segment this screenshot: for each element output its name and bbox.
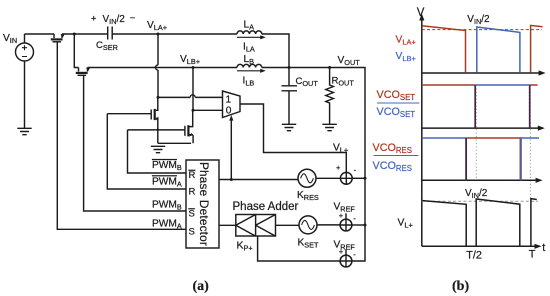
- axis vertical (b): [421, 18, 423, 246]
- dotted guide T: [529, 85, 531, 199]
- svg-text:VCORES: VCORES: [373, 160, 412, 173]
- oscillator KRES: [297, 169, 319, 202]
- summing node 3: [334, 240, 357, 267]
- summing node 2: [334, 202, 357, 231]
- svg-text:V: V: [417, 7, 425, 19]
- svg-text:PWMB: PWMB: [152, 200, 182, 212]
- svg-text:PWMA: PWMA: [152, 219, 182, 231]
- wire LB to VOUT corner: [262, 68, 365, 262]
- svg-text:COUT: COUT: [296, 76, 319, 88]
- waveform VCOSET (red) panel2: [422, 84, 538, 86]
- svg-text:-: -: [353, 214, 356, 223]
- svg-text:T: T: [529, 248, 536, 260]
- svg-text:-: -: [354, 166, 357, 175]
- capacitor C_SER: [91, 13, 135, 52]
- label VCORES bar blue: [374, 155, 419, 157]
- wire gate M4 down to R bar pin: [128, 130, 187, 173]
- svg-text:VIN/2: VIN/2: [103, 14, 126, 26]
- panel4 x axis: [422, 245, 538, 247]
- svg-text:VLA+: VLA+: [396, 35, 417, 47]
- svg-text:VREF: VREF: [334, 240, 356, 252]
- svg-text:LA: LA: [244, 20, 255, 32]
- wire down to M2: [74, 34, 78, 68]
- svg-text:R: R: [189, 186, 196, 197]
- svg-text:t: t: [542, 242, 545, 254]
- waveform VCOSET bar (blue) panel2: [475, 84, 530, 86]
- phase detector box U1: [186, 160, 219, 248]
- panel2 x axis: [422, 127, 541, 129]
- svg-text:Phase Adder: Phase Adder: [233, 201, 299, 213]
- inductor LA: [237, 20, 266, 54]
- inductor LB: [237, 54, 266, 88]
- wire top rail VIN to M1: [25, 33, 55, 35]
- wire gate M3 down to R pin: [107, 114, 186, 189]
- wire KRES to sum1: [316, 177, 340, 179]
- svg-text:VLA+: VLA+: [147, 20, 167, 32]
- wire M3 source down and source rail to M4: [158, 129, 191, 143]
- transistor M4: [127, 110, 193, 143]
- phase adder block: [233, 201, 299, 253]
- svg-text:(b): (b): [452, 279, 469, 294]
- svg-text:PWMA: PWMA: [152, 176, 182, 188]
- svg-text:KSET: KSET: [298, 238, 320, 250]
- wire VLA node to mux input 1 with hop: [157, 96, 160, 99]
- wire gate M2 down to S bar pin: [84, 75, 186, 211]
- capacitor COUT: [282, 68, 319, 125]
- wire M1 drain to C_SER: [62, 33, 108, 35]
- svg-text:ILB: ILB: [243, 76, 255, 88]
- svg-text:VL+: VL+: [333, 143, 348, 155]
- wire VLB rail M2 to LB: [88, 67, 238, 69]
- wire KSET to sum2: [317, 224, 341, 226]
- waveform VLA+ (red) panel1: [422, 25, 543, 72]
- svg-text:VCORES: VCORES: [373, 142, 412, 155]
- label VCOSET bar blue: [377, 102, 419, 104]
- node VLB+: [192, 66, 195, 69]
- wire gate M1 down to S pin: [57, 42, 186, 230]
- transistor M2: [76, 67, 91, 75]
- svg-text:VCOSET: VCOSET: [377, 89, 416, 102]
- panel1 VIN/2 dashed level: [422, 29, 542, 31]
- waveform VCORES bar (blue) panel3: [422, 138, 539, 180]
- svg-text:1: 1: [226, 95, 232, 106]
- svg-text:KP+: KP+: [237, 240, 253, 253]
- ground (ROUT): [322, 124, 336, 130]
- summing node 1: [336, 163, 357, 184]
- panel1 x axis: [422, 72, 542, 74]
- ground (COUT): [282, 124, 296, 130]
- wire mux select from phase detector output: [230, 120, 232, 180]
- wire PD S output to phase adder: [219, 224, 236, 226]
- wire LA to output node: [262, 34, 289, 68]
- svg-text:(a): (a): [193, 279, 210, 294]
- dotted guide T/2: [475, 85, 477, 180]
- svg-text:T/2: T/2: [466, 249, 482, 261]
- svg-text:KRES: KRES: [297, 190, 319, 202]
- svg-text:−: −: [130, 13, 135, 23]
- panel4 dashed level: [422, 200, 538, 202]
- transistor M3: [107, 97, 158, 129]
- wire sum1 to VOUT rail: [352, 177, 365, 179]
- wire VLB+ down to mux input 0: [193, 68, 223, 111]
- wire phase adder to KSET: [276, 224, 301, 226]
- wire C_SER to LA: [112, 33, 237, 35]
- panel3 x axis: [422, 179, 539, 181]
- transistor M1: [51, 33, 65, 41]
- mux (1/0 selector): [223, 91, 241, 118]
- wire PD R output to KRES: [219, 179, 300, 181]
- wire phase adder bottom to sum3: [258, 236, 341, 261]
- oscillator KSET: [298, 216, 320, 250]
- svg-text:+: +: [91, 14, 96, 24]
- svg-text:VIN: VIN: [3, 33, 17, 45]
- node junction top rail to M2: [73, 33, 76, 36]
- ground (VIN): [17, 128, 31, 134]
- waveform VLB+ (blue) panel1: [477, 27, 520, 72]
- resistor ROUT: [326, 68, 355, 125]
- svg-text:VL+: VL+: [398, 217, 414, 229]
- waveform VL+ (black) panel4: [422, 199, 536, 246]
- svg-text:S: S: [189, 208, 195, 219]
- svg-text:VLB+: VLB+: [396, 51, 417, 63]
- source VIN: [3, 33, 34, 128]
- svg-text:+: +: [336, 163, 341, 172]
- waveform VCORES (red) panel3: [467, 138, 521, 180]
- svg-text:PWMB: PWMB: [152, 160, 182, 172]
- svg-text:LB: LB: [244, 54, 255, 66]
- svg-text:ROUT: ROUT: [332, 76, 355, 88]
- svg-text:VREF: VREF: [334, 202, 356, 214]
- svg-text:CSER: CSER: [96, 40, 118, 52]
- svg-text:R: R: [189, 170, 196, 181]
- svg-text:0: 0: [226, 106, 232, 117]
- svg-text:Phase Detector: Phase Detector: [197, 162, 211, 246]
- node VLA+: [157, 33, 160, 36]
- svg-text:S: S: [189, 226, 195, 237]
- svg-text:VCOSET: VCOSET: [377, 106, 416, 119]
- svg-text:VIN/2: VIN/2: [467, 14, 490, 26]
- svg-text:ILA: ILA: [243, 42, 255, 54]
- svg-text:VLB+: VLB+: [180, 54, 200, 66]
- wire sum2 to VOUT rail: [352, 224, 365, 226]
- svg-text:VOUT: VOUT: [338, 55, 361, 67]
- ground (M3 M4 sources): [151, 146, 165, 152]
- wire mux output to VL+ node: [240, 104, 346, 172]
- wire VLA+ down with hop over VLB rail: [155, 34, 158, 97]
